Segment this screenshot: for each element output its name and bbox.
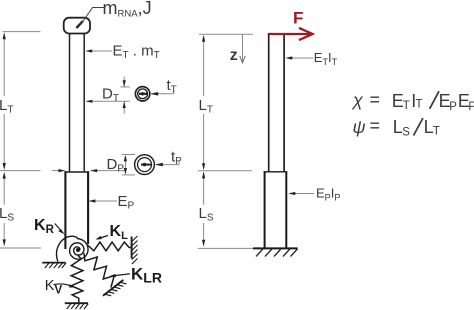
- coupled spring K_LR: [84, 253, 114, 288]
- tower left figure: [69, 34, 71, 172]
- svg-text:T: T: [416, 99, 423, 111]
- wall support for K_L: [131, 237, 133, 259]
- inclined support for K_LR: [103, 280, 123, 296]
- nacelle hatch slash: [76, 21, 83, 28]
- dimension L_T left figure: [3, 32, 41, 168]
- cross-section circle pile: [135, 155, 155, 175]
- nacelle mass m_RNA: [64, 18, 90, 34]
- tower middle figure: [268, 34, 270, 171]
- svg-text:P: P: [449, 101, 457, 113]
- label E_P with arrow: [90, 200, 117, 202]
- dimension L_S left figure: [0, 174, 41, 248]
- svg-text:T: T: [433, 126, 440, 138]
- svg-text:ψ: ψ: [353, 117, 366, 137]
- svg-text:z: z: [230, 47, 238, 64]
- svg-text:χ: χ: [351, 90, 364, 110]
- ground middle figure: [253, 247, 298, 249]
- equation psi = LS / LT: [353, 116, 440, 139]
- label z with arrow: [242, 34, 244, 62]
- svg-text:S: S: [402, 126, 410, 138]
- label E_P I_P with arrow: [290, 193, 314, 195]
- pile middle figure: [264, 171, 266, 248]
- svg-text:T: T: [403, 100, 410, 112]
- pile left figure: [64, 171, 66, 249]
- label E_T . m_T with arrow: [87, 50, 112, 52]
- label t_T with arrow: [152, 93, 174, 95]
- support ground for K_R: [42, 262, 65, 264]
- label E_T I_T with arrow: [287, 57, 314, 59]
- rotational spring K_R spiral: [57, 236, 89, 261]
- svg-text:ET . mT: ET . mT: [113, 43, 160, 62]
- svg-text:=: =: [370, 90, 381, 110]
- leader to m_RNA label: [81, 8, 105, 26]
- cross-section circle tower: [135, 87, 149, 101]
- dimension L_S middle figure: [198, 173, 253, 248]
- svg-text:=: =: [370, 116, 381, 136]
- ground for K_V: [65, 302, 88, 304]
- force F arrow (red): [269, 28, 313, 40]
- dimension L_T middle figure: [198, 34, 253, 171]
- dimension D_P: [122, 155, 135, 175]
- svg-text:P: P: [468, 101, 474, 113]
- lateral spring K_L: [88, 242, 132, 251]
- equation chi = ET IT / EP EP: [351, 90, 474, 114]
- vertical spring K_V: [71, 256, 83, 303]
- dimension D_T: [87, 77, 130, 114]
- svg-text:F: F: [293, 9, 303, 28]
- boundary level line at tower/pile transition: [0, 170, 125, 172]
- label t_P with arrow: [156, 164, 179, 166]
